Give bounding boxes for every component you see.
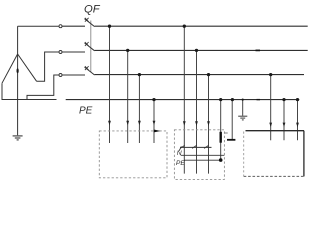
- wire drop PE to terminal bar: [231, 100, 233, 140]
- load box 3: dashed bottom edge: [244, 175, 304, 177]
- stub wire from box2 right edge: [224, 132, 227, 134]
- transformer T1 delta winding: [2, 54, 37, 83]
- junction dots: [108, 25, 299, 102]
- svg-text:N: N: [177, 150, 182, 157]
- wire drop L3 to box1: [138, 75, 140, 143]
- arrow drop 109: [108, 121, 111, 126]
- wire to breaker pole 1: [62, 25, 85, 27]
- dash mark on L2: [256, 49, 261, 51]
- node PE-bar: [231, 98, 234, 101]
- wire drop L1 to box1: [109, 26, 111, 143]
- wire phase B: right corner up to terminal: [37, 52, 59, 81]
- switch blade 3: [204, 145, 209, 148]
- wire drop L1 to box2: [183, 26, 185, 173]
- terminal circle pole 2: [59, 51, 62, 54]
- node PE-box3 b: [296, 98, 299, 101]
- arrow mark on neutral: [17, 68, 19, 73]
- node PE-box1: [152, 98, 155, 101]
- arrow drop 139: [138, 121, 141, 126]
- wire jog segment phase C: [27, 75, 59, 100]
- load box 3: dashed left edge: [243, 132, 245, 177]
- node PE bar end: [219, 158, 223, 162]
- earth electrode symbol (re-earthing): [238, 116, 247, 120]
- terminal circle pole 3: [59, 74, 62, 77]
- node L3-box2: [207, 73, 210, 76]
- svg-text:PE: PE: [176, 160, 186, 167]
- load box 3: solid right edge: [303, 131, 305, 177]
- terminal bar (thick): [227, 139, 235, 141]
- load box 3: solid top edge: [246, 130, 305, 132]
- ground (transformer neutral earth): [13, 136, 23, 140]
- arrow drop 196: [195, 121, 198, 126]
- breaker QF pole 1 blade: [85, 19, 95, 27]
- arrow drop 208: [207, 121, 210, 126]
- wire drop PE to busbar box2: [220, 100, 222, 160]
- switch blade 2: [192, 145, 197, 148]
- wire drop PE to box3 a: [283, 100, 285, 141]
- wire drop L3 to box3: [270, 75, 272, 141]
- svg-text:QF: QF: [84, 4, 101, 16]
- wire to breaker pole 2: [62, 51, 85, 53]
- node PE-busbar: [219, 98, 222, 101]
- node PE-box3 a: [282, 98, 285, 101]
- breaker QF pole 2 contact x: [85, 42, 89, 46]
- bus L3: [95, 74, 304, 76]
- load box 1 (dashed): [99, 131, 167, 178]
- node L1-box1: [108, 25, 111, 28]
- distribution box 2 (dashed): [174, 130, 224, 180]
- wire drop L2 to box1: [127, 50, 129, 143]
- arrow drop 127: [126, 121, 129, 126]
- arrow drop 297: [296, 123, 299, 128]
- node L3-box3: [269, 73, 272, 76]
- bus PE/PEN: [66, 99, 300, 101]
- wire drop L3 to box2: [208, 75, 210, 174]
- svg-text:PE: PE: [79, 105, 93, 116]
- node L2-box2: [195, 49, 198, 52]
- breaker QF pole 3 contact x: [85, 66, 89, 70]
- bus L2: [95, 49, 308, 51]
- PE bar in box2: [184, 159, 221, 161]
- wire drop L2 to box2: [196, 50, 198, 173]
- wire drop PE to box1: [153, 100, 155, 143]
- node L3-box1: [138, 73, 141, 76]
- arrow on box1 top edge: [154, 130, 161, 133]
- arrow drop 154: [153, 121, 156, 126]
- wire phase A top: apex to terminal: [18, 25, 59, 27]
- node L2-box1: [126, 49, 129, 52]
- node L1-box2: [183, 25, 186, 28]
- breaker QF pole 2 blade: [85, 43, 95, 51]
- arrow drop 184: [183, 121, 186, 126]
- bus L1: [95, 25, 308, 27]
- wire drop PE to box3 b: [297, 100, 299, 141]
- switch row in box2: [180, 146, 212, 148]
- wire drop PE to earth: [242, 100, 244, 116]
- dash mark on PE: [257, 99, 261, 101]
- breaker QF pole 1 contact x: [85, 18, 89, 22]
- PE busbar (solid) in box2: [220, 132, 222, 143]
- arrow drop 270: [269, 123, 272, 128]
- arrowheads on feeder drops: [108, 121, 299, 127]
- N bar in box2: [181, 154, 225, 156]
- terminal circle pole 1: [59, 25, 62, 28]
- wire to breaker pole 3: [62, 74, 85, 76]
- wire phase C: left corner down and around to terminal: [2, 83, 57, 99]
- node PE-earth: [242, 99, 244, 101]
- transformer neutral vertical wire: [17, 26, 19, 135]
- breaker QF pole 3 blade: [85, 67, 95, 75]
- switch blade 1: [180, 145, 185, 148]
- breaker QF linkage bar: [90, 21, 92, 73]
- arrow drop 284: [283, 123, 286, 128]
- switch row left hook: [179, 146, 181, 150]
